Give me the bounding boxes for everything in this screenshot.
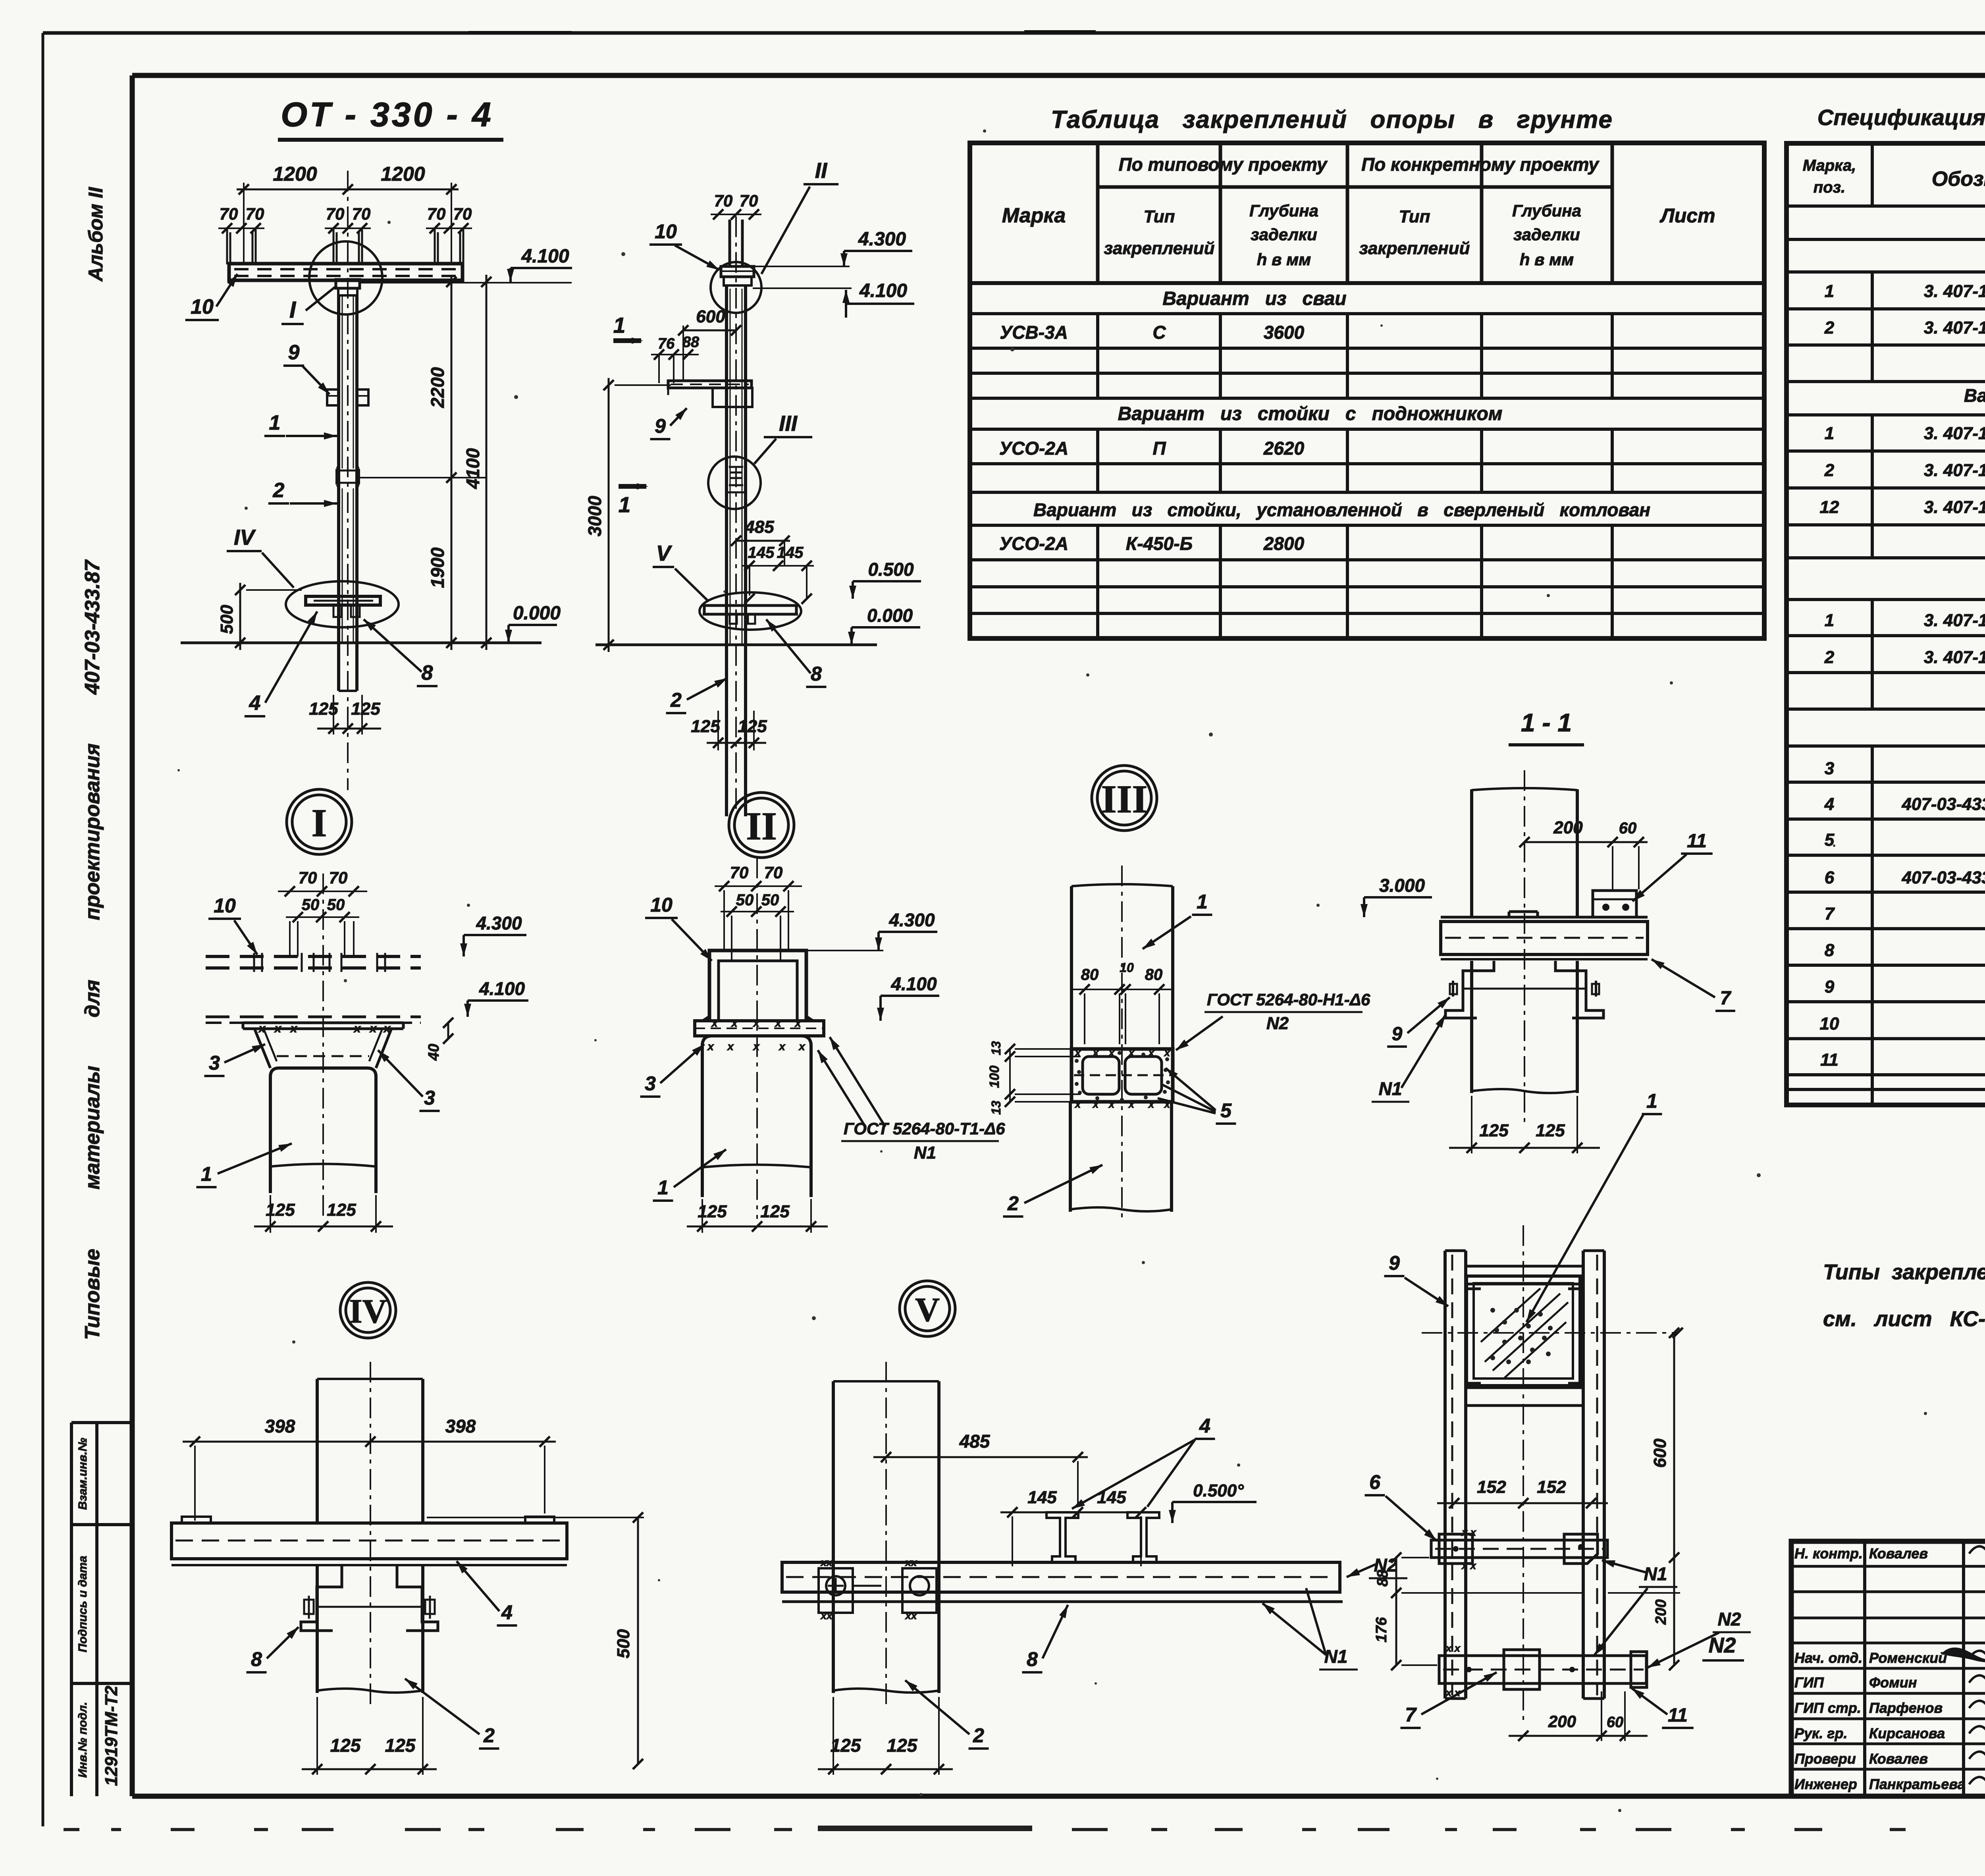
elevation 1 flag 0.000	[509, 624, 557, 626]
detail III GOST weld note N2	[1176, 990, 1370, 1050]
svg-text:1: 1	[201, 1163, 212, 1185]
svg-text:Вариант из стойки с по: Вариант из стойки с подножником	[1118, 403, 1503, 424]
svg-text:1: 1	[1197, 891, 1208, 913]
frame middle beam pos.6	[1431, 1526, 1607, 1571]
svg-text:4.300: 4.300	[888, 910, 935, 930]
svg-text:N2: N2	[1718, 1609, 1741, 1629]
elevation 1 detail I circle mark	[309, 241, 382, 314]
elevation 1 pole shaft pos.1/2	[337, 295, 358, 691]
svg-text:I: I	[289, 297, 297, 323]
svg-text:1: 1	[1825, 281, 1834, 301]
svg-text:x x: x x	[1461, 1560, 1477, 1571]
detail I flag 4.300	[464, 934, 526, 936]
svg-text:11: 11	[1668, 1705, 1688, 1726]
svg-text:3. 407-102 Вып.1: 3. 407-102 Вып.1	[1924, 648, 1985, 667]
detail III dims 13/100/13	[987, 1041, 1081, 1115]
svg-text:1900: 1900	[427, 547, 448, 588]
svg-text:x: x	[369, 1022, 377, 1035]
svg-text:9: 9	[1825, 977, 1835, 997]
elevation 2 bracket beam pos.9	[668, 381, 752, 407]
detail IV centreline	[370, 1362, 371, 1707]
svg-text:x: x	[1074, 1098, 1081, 1110]
svg-text:70: 70	[427, 204, 446, 223]
elevation 1 pole centreline	[347, 171, 349, 790]
svg-text:0.000: 0.000	[867, 605, 913, 626]
svg-text:3. 407-102 Вып.1: 3. 407-102 Вып.1	[1924, 281, 1985, 301]
svg-text:407-03-433.87: 407-03-433.87	[81, 559, 104, 695]
svg-text:125: 125	[1479, 1121, 1509, 1140]
svg-text:Таблица закреплений опоры: Таблица закреплений опоры в грунте	[1051, 106, 1613, 133]
svg-text:70: 70	[352, 204, 371, 223]
elevation 2 pole centreline	[735, 216, 737, 822]
frame lower channel bar	[1466, 1383, 1583, 1406]
svg-text:407-03-433.87- КСИ-022: 407-03-433.87- КСИ-022	[1901, 868, 1985, 887]
detail I circled label	[287, 789, 352, 854]
svg-text:Глубина: Глубина	[1512, 201, 1581, 220]
svg-text:125: 125	[327, 1200, 356, 1220]
elevation 1 ground line 0.000	[181, 642, 542, 644]
elevation 2 flag 4.100 (arrow up)	[753, 280, 914, 318]
svg-text:9: 9	[1389, 1252, 1400, 1274]
elevation 2 dims 145/145	[742, 544, 814, 604]
elevation 2 dim 485	[731, 517, 790, 566]
svg-text:Вариант из стойки с подножнико: Вариант из стойки с подножником	[1964, 385, 1985, 406]
elevation 2 detail III circle mark	[708, 457, 761, 509]
svg-text:4: 4	[1824, 794, 1834, 814]
svg-text:11: 11	[1820, 1050, 1839, 1070]
svg-text:2: 2	[1007, 1192, 1019, 1215]
svg-text:x: x	[752, 1040, 760, 1053]
svg-text:80: 80	[1081, 966, 1099, 983]
svg-text:x: x	[258, 1022, 266, 1035]
svg-text:13: 13	[989, 1041, 1003, 1055]
svg-text:145: 145	[777, 544, 804, 561]
svg-text:50: 50	[761, 891, 779, 909]
note about fixing types	[1823, 1260, 1985, 1331]
svg-text:x: x	[711, 1017, 718, 1029]
frame top channel bar	[1466, 1266, 1583, 1289]
svg-text:1: 1	[1825, 424, 1834, 443]
svg-text:60: 60	[1607, 1714, 1623, 1731]
svg-text:x: x	[1148, 1047, 1155, 1059]
svg-text:6: 6	[1825, 868, 1835, 887]
svg-text:ОТ - 330 - 4: ОТ - 330 - 4	[281, 96, 493, 134]
elevation 2 pole shaft	[727, 285, 746, 816]
detail IV dim 398/398	[183, 1416, 556, 1521]
detail V pole	[833, 1381, 939, 1693]
svg-text:3. 407-102 Вып.1: 3. 407-102 Вып.1	[1924, 611, 1985, 630]
svg-text:N2: N2	[1266, 1014, 1289, 1033]
svg-text:x: x	[383, 1022, 391, 1035]
svg-text:Н. контр.: Н. контр.	[1794, 1545, 1863, 1562]
svg-text:По конкретному проекту: По конкретному проекту	[1361, 154, 1600, 175]
svg-text:11: 11	[1687, 831, 1707, 852]
detail V circled label	[900, 1281, 955, 1336]
detail V beam pos.8	[782, 1556, 1343, 1621]
elevation 1 base oval detail IV pos.4/8	[286, 581, 399, 627]
svg-text:1: 1	[613, 313, 626, 337]
svg-text:Тип: Тип	[1399, 207, 1430, 226]
detail I dims 70/70 50/50	[278, 868, 367, 956]
svg-text:4.100: 4.100	[859, 280, 907, 301]
svg-text:3. 407-102 Вып.1: 3. 407-102 Вып.1	[1924, 497, 1985, 517]
fixing table band and data rows	[999, 288, 1650, 554]
svg-text:200: 200	[1553, 818, 1583, 837]
svg-text:0.000: 0.000	[513, 603, 561, 624]
svg-text:поз.: поз.	[1813, 179, 1845, 196]
svg-text:N1: N1	[914, 1143, 936, 1163]
svg-text:ГОСТ 5264-80-Н1-Δ6: ГОСТ 5264-80-Н1-Δ6	[1207, 990, 1370, 1009]
svg-text:500: 500	[217, 605, 237, 634]
svg-text:III: III	[779, 411, 798, 436]
detail IV circled label	[340, 1282, 396, 1338]
svg-text:3: 3	[1825, 759, 1834, 778]
elevation 1 traverse beam pos.10	[229, 264, 463, 280]
svg-text:125: 125	[330, 1735, 361, 1756]
svg-text:5: 5	[1825, 830, 1835, 850]
svg-text:x: x	[274, 1022, 282, 1035]
section 1-1 beam pos.7	[1441, 912, 1648, 959]
label N2 left of title block	[1702, 1633, 1744, 1660]
frame bottom beam pos.7	[1439, 1642, 1647, 1699]
specification table section bands	[1964, 210, 1985, 742]
svg-text:II: II	[746, 804, 777, 848]
elevation 1 dim 4100	[463, 275, 491, 650]
svg-text:4.100: 4.100	[479, 978, 525, 999]
left margin rotated captions	[81, 187, 107, 1340]
svg-text:xx: xx	[905, 1556, 917, 1568]
detail I flange trapezoid	[243, 1022, 403, 1068]
svg-text:8: 8	[811, 663, 822, 685]
svg-text:x x: x x	[1461, 1526, 1477, 1538]
svg-text:10: 10	[655, 220, 677, 243]
svg-text:8: 8	[1825, 941, 1835, 960]
svg-text:2800: 2800	[1263, 533, 1305, 554]
svg-text:x: x	[798, 1040, 806, 1053]
svg-text:Роменский: Роменский	[1869, 1650, 1947, 1666]
svg-text:50: 50	[327, 896, 345, 914]
svg-text:Ковалев: Ковалев	[1869, 1751, 1928, 1767]
svg-text:x: x	[730, 1017, 738, 1029]
svg-text:10: 10	[191, 295, 214, 318]
svg-text:x: x	[1164, 1047, 1171, 1059]
svg-text:152: 152	[1477, 1477, 1506, 1497]
svg-text:3: 3	[645, 1072, 656, 1095]
svg-text:2: 2	[973, 1724, 984, 1747]
svg-text:Провери: Провери	[1794, 1751, 1856, 1767]
svg-text:xx: xx	[820, 1610, 833, 1621]
section 1-1 dim 125/125	[1449, 1096, 1600, 1153]
svg-text:3. 407-102 Вып.1: 3. 407-102 Вып.1	[1924, 461, 1985, 480]
svg-text:70: 70	[453, 204, 472, 223]
svg-text:h в мм: h в мм	[1257, 250, 1311, 269]
svg-text:N1: N1	[1379, 1078, 1402, 1099]
svg-text:N2: N2	[1708, 1633, 1736, 1657]
detail V dims 145/145	[1000, 1488, 1151, 1566]
elevation 2 cap assembly pos.10	[721, 266, 754, 285]
svg-text:x: x	[778, 1040, 786, 1053]
svg-text:закреплений: закреплений	[1359, 239, 1470, 258]
detail V rail stubs pos.4	[1046, 1512, 1159, 1562]
specification table grid	[1786, 143, 1985, 1105]
frame dims 88/176	[1373, 1552, 1584, 1670]
svg-text:3600: 3600	[1264, 322, 1305, 343]
section 1-1 flag 3.000	[1364, 896, 1432, 898]
svg-text:125: 125	[760, 1202, 790, 1221]
elevation 2 dims 76/88	[651, 334, 700, 383]
detail II circled label	[729, 792, 794, 858]
section 1-1 pole	[1472, 788, 1577, 1093]
svg-text:1200: 1200	[381, 163, 425, 185]
svg-text:Вариант из сваи: Вариант из сваи	[1162, 288, 1346, 309]
svg-text:88: 88	[1374, 1569, 1391, 1587]
elevation 2 flag 0.000	[852, 626, 920, 629]
svg-text:145: 145	[748, 544, 775, 561]
title block frame	[1791, 1541, 1985, 1796]
section 1-1 bolt block pos.11	[1593, 891, 1636, 917]
svg-text:12: 12	[1820, 497, 1839, 517]
frame left rail pos.9	[1445, 1251, 1466, 1699]
svg-text:Типовые: Типовые	[81, 1249, 104, 1340]
svg-text:Марка,: Марка,	[1803, 157, 1856, 174]
detail III lower pole pos.2	[1070, 1102, 1172, 1212]
elevation 2 dim 70/70 top	[711, 191, 761, 220]
svg-text:x: x	[774, 1017, 782, 1029]
svg-text:1: 1	[1825, 611, 1834, 630]
elevation 2 section mark 1 upper	[613, 313, 643, 344]
svg-text:x: x	[1128, 1098, 1135, 1110]
svg-text:h в мм: h в мм	[1520, 250, 1574, 269]
svg-text:4100: 4100	[463, 448, 483, 489]
svg-text:0.500: 0.500	[868, 559, 914, 580]
section 1-1 label N1	[1372, 1015, 1445, 1102]
svg-text:Лист: Лист	[1659, 204, 1715, 227]
svg-text:Обозначение: Обозначение	[1932, 168, 1985, 191]
svg-text:3000: 3000	[584, 496, 605, 536]
svg-text:2620: 2620	[1263, 438, 1305, 459]
svg-text:xx: xx	[905, 1610, 917, 1621]
detail III dims 80/10/80	[1072, 960, 1171, 1044]
svg-text:70: 70	[714, 191, 733, 210]
svg-text:N1: N1	[1644, 1564, 1667, 1584]
detail V centreline	[885, 1362, 887, 1707]
svg-text:10: 10	[650, 894, 673, 916]
svg-text:600: 600	[696, 307, 725, 326]
svg-text:Вариант из стойки, устан: Вариант из стойки, установленной в сверл…	[1033, 499, 1650, 520]
svg-text:3. 407-102 Вып.1: 3. 407-102 Вып.1	[1924, 318, 1985, 337]
elevation 1 clamp pos.9	[327, 389, 368, 405]
svg-text:x: x	[794, 1017, 802, 1029]
svg-text:проектирования: проектирования	[81, 743, 104, 920]
section 1-1 brackets pos.9 with bolts	[1445, 961, 1603, 1018]
svg-text:УСВ-3А: УСВ-3А	[1000, 322, 1068, 343]
svg-text:Парфенов: Парфенов	[1869, 1700, 1943, 1716]
svg-text:2: 2	[1824, 648, 1835, 667]
svg-text:60: 60	[1619, 819, 1637, 837]
svg-text:5: 5	[1220, 1099, 1232, 1122]
svg-text:3: 3	[424, 1087, 435, 1109]
svg-text:x: x	[707, 1040, 714, 1053]
svg-text:4.300: 4.300	[476, 913, 522, 933]
svg-text:6: 6	[1369, 1471, 1381, 1493]
detail III upper pole pos.1	[1072, 884, 1173, 1049]
svg-text:III: III	[1101, 777, 1148, 821]
svg-text:I: I	[312, 801, 327, 845]
svg-text:9: 9	[655, 415, 666, 437]
svg-text:ГИП: ГИП	[1794, 1674, 1824, 1691]
svg-text:176: 176	[1373, 1617, 1390, 1642]
elevation 2 dim 3000	[584, 378, 671, 652]
svg-text:70: 70	[220, 204, 238, 223]
svg-text:125: 125	[691, 717, 720, 736]
detail III circled label	[1092, 765, 1157, 831]
svg-text:70: 70	[246, 204, 264, 223]
svg-text:70: 70	[740, 191, 758, 210]
svg-text:500: 500	[614, 1629, 633, 1658]
svg-text:398: 398	[265, 1416, 295, 1436]
specification table header texts	[1803, 157, 1985, 196]
svg-text:материалы: материалы	[81, 1066, 104, 1190]
svg-text:8: 8	[1027, 1648, 1038, 1670]
svg-text:1: 1	[657, 1176, 669, 1199]
svg-text:Нач. отд.: Нач. отд.	[1794, 1650, 1862, 1666]
svg-text:П: П	[1152, 438, 1166, 459]
svg-text:10: 10	[1120, 960, 1134, 975]
elevation 2 flag 0.500	[853, 580, 921, 582]
frame label N2	[1648, 1609, 1751, 1668]
elevation 1 bolt dims 70/70	[218, 204, 472, 264]
detail V labels N2 N1	[1262, 1555, 1407, 1670]
svg-text:125: 125	[351, 699, 380, 719]
detail II dims 70/70 50/50	[715, 863, 802, 961]
frame concrete pad with hatch pos.1	[1467, 1276, 1580, 1386]
detail II centreline	[756, 858, 758, 1219]
elevation 1 top dimension 1200/1200	[237, 163, 459, 264]
svg-text:100: 100	[987, 1066, 1002, 1088]
svg-text:145: 145	[1027, 1488, 1057, 1507]
svg-text:407-03-433.87- КСИ-022: 407-03-433.87- КСИ-022	[1901, 794, 1985, 814]
svg-text:125: 125	[385, 1735, 416, 1756]
detail IV dim 500 right	[427, 1512, 644, 1769]
svg-text:9: 9	[1392, 1024, 1403, 1045]
svg-text:1: 1	[1646, 1090, 1657, 1112]
svg-text:xx: xx	[820, 1556, 833, 1568]
detail I centreline	[322, 873, 324, 1219]
svg-text:10: 10	[1820, 1014, 1839, 1033]
svg-text:V: V	[915, 1290, 940, 1328]
svg-text:485: 485	[959, 1431, 991, 1452]
detail V dim 485	[873, 1431, 1088, 1507]
svg-text:Инв.№ подл.: Инв.№ подл.	[76, 1702, 89, 1778]
svg-text:50: 50	[736, 891, 754, 909]
svg-text:2: 2	[483, 1724, 495, 1747]
svg-text:II: II	[815, 158, 828, 183]
svg-text:V: V	[656, 541, 673, 565]
svg-text:76: 76	[658, 335, 675, 352]
svg-text:0.500°: 0.500°	[1193, 1481, 1244, 1500]
svg-text:Панкратьева: Панкратьева	[1869, 1776, 1966, 1792]
svg-text:x: x	[1128, 1047, 1135, 1059]
elevation 2 dim 600	[678, 307, 741, 381]
svg-text:125: 125	[1536, 1121, 1565, 1140]
svg-text:8: 8	[251, 1648, 262, 1670]
svg-text:50: 50	[302, 896, 320, 914]
svg-text:Спецификация к схеме расположе: Спецификация к схеме расположения элемен…	[1817, 105, 1985, 130]
svg-text:4: 4	[1199, 1415, 1210, 1437]
svg-text:x: x	[1108, 1047, 1115, 1059]
detail I dim 125/125	[254, 1195, 393, 1233]
svg-text:70: 70	[326, 204, 345, 223]
svg-text:200: 200	[1548, 1712, 1576, 1731]
svg-text:7: 7	[1720, 988, 1732, 1009]
svg-text:3: 3	[209, 1052, 220, 1074]
elevation 1 flag 4.100	[511, 267, 572, 269]
svg-text:N1: N1	[1324, 1646, 1348, 1667]
detail IV beam pos.4	[172, 1517, 567, 1565]
svg-text:x: x	[290, 1022, 298, 1035]
svg-text:С: С	[1152, 322, 1166, 343]
elevation 2 section mark 1 lower	[619, 483, 648, 517]
svg-text:4.100: 4.100	[890, 974, 937, 994]
svg-text:2: 2	[670, 689, 682, 711]
frame dim 600	[1650, 1328, 1679, 1563]
svg-text:2200: 2200	[427, 367, 448, 408]
section 1-1 dim 200/60	[1519, 818, 1648, 889]
frame label N1	[1594, 1560, 1677, 1656]
detail II pole	[702, 1036, 811, 1197]
svg-text:1 - 1: 1 - 1	[1521, 708, 1572, 737]
detail IV hangers pos.8	[301, 1565, 438, 1631]
svg-text:125: 125	[831, 1735, 861, 1756]
svg-text:ГИП стр.: ГИП стр.	[1794, 1700, 1861, 1716]
svg-text:600: 600	[1650, 1438, 1670, 1468]
detail II dim 125/125	[687, 1199, 828, 1233]
svg-text:x: x	[752, 1017, 760, 1029]
detail I top plate dashed pos.10	[206, 953, 421, 972]
svg-text:для: для	[81, 979, 104, 1017]
frame dim 200 right	[1608, 1558, 1680, 1670]
detail I lower plate dashed	[206, 1017, 421, 1023]
frame right rail	[1583, 1251, 1604, 1699]
elevation 1 dim chain 2200/1900	[359, 275, 486, 650]
svg-text:1: 1	[619, 492, 631, 517]
svg-text:УСО-2А: УСО-2А	[999, 533, 1068, 554]
svg-text:IV: IV	[349, 1292, 387, 1330]
svg-text:70: 70	[764, 863, 783, 882]
svg-text:ГОСТ 5264-80-Т1-Δ6: ГОСТ 5264-80-Т1-Δ6	[844, 1119, 1005, 1138]
svg-text:2: 2	[273, 479, 285, 502]
svg-text:x x: x x	[1445, 1642, 1461, 1654]
elevation 2 detail II circle mark	[711, 262, 761, 313]
svg-text:Инженер: Инженер	[1794, 1776, 1857, 1792]
svg-text:4.300: 4.300	[858, 229, 906, 250]
svg-text:70: 70	[299, 868, 317, 887]
drawing title OT-330-4	[278, 96, 503, 140]
svg-text:2: 2	[1824, 461, 1835, 480]
svg-text:40: 40	[426, 1044, 442, 1061]
svg-text:Ковалев: Ковалев	[1869, 1545, 1928, 1562]
detail II channel section pos.10	[703, 951, 813, 1021]
scan noise top edge	[468, 27, 1985, 33]
svg-text:145: 145	[1097, 1488, 1126, 1507]
svg-text:К-450-Б: К-450-Б	[1126, 533, 1193, 554]
svg-text:8: 8	[422, 661, 433, 684]
svg-text:x: x	[1148, 1098, 1155, 1110]
svg-text:9: 9	[288, 341, 300, 364]
fixing table header texts	[1002, 154, 1715, 269]
svg-text:3.000: 3.000	[1379, 875, 1425, 896]
svg-text:7: 7	[1405, 1704, 1417, 1726]
